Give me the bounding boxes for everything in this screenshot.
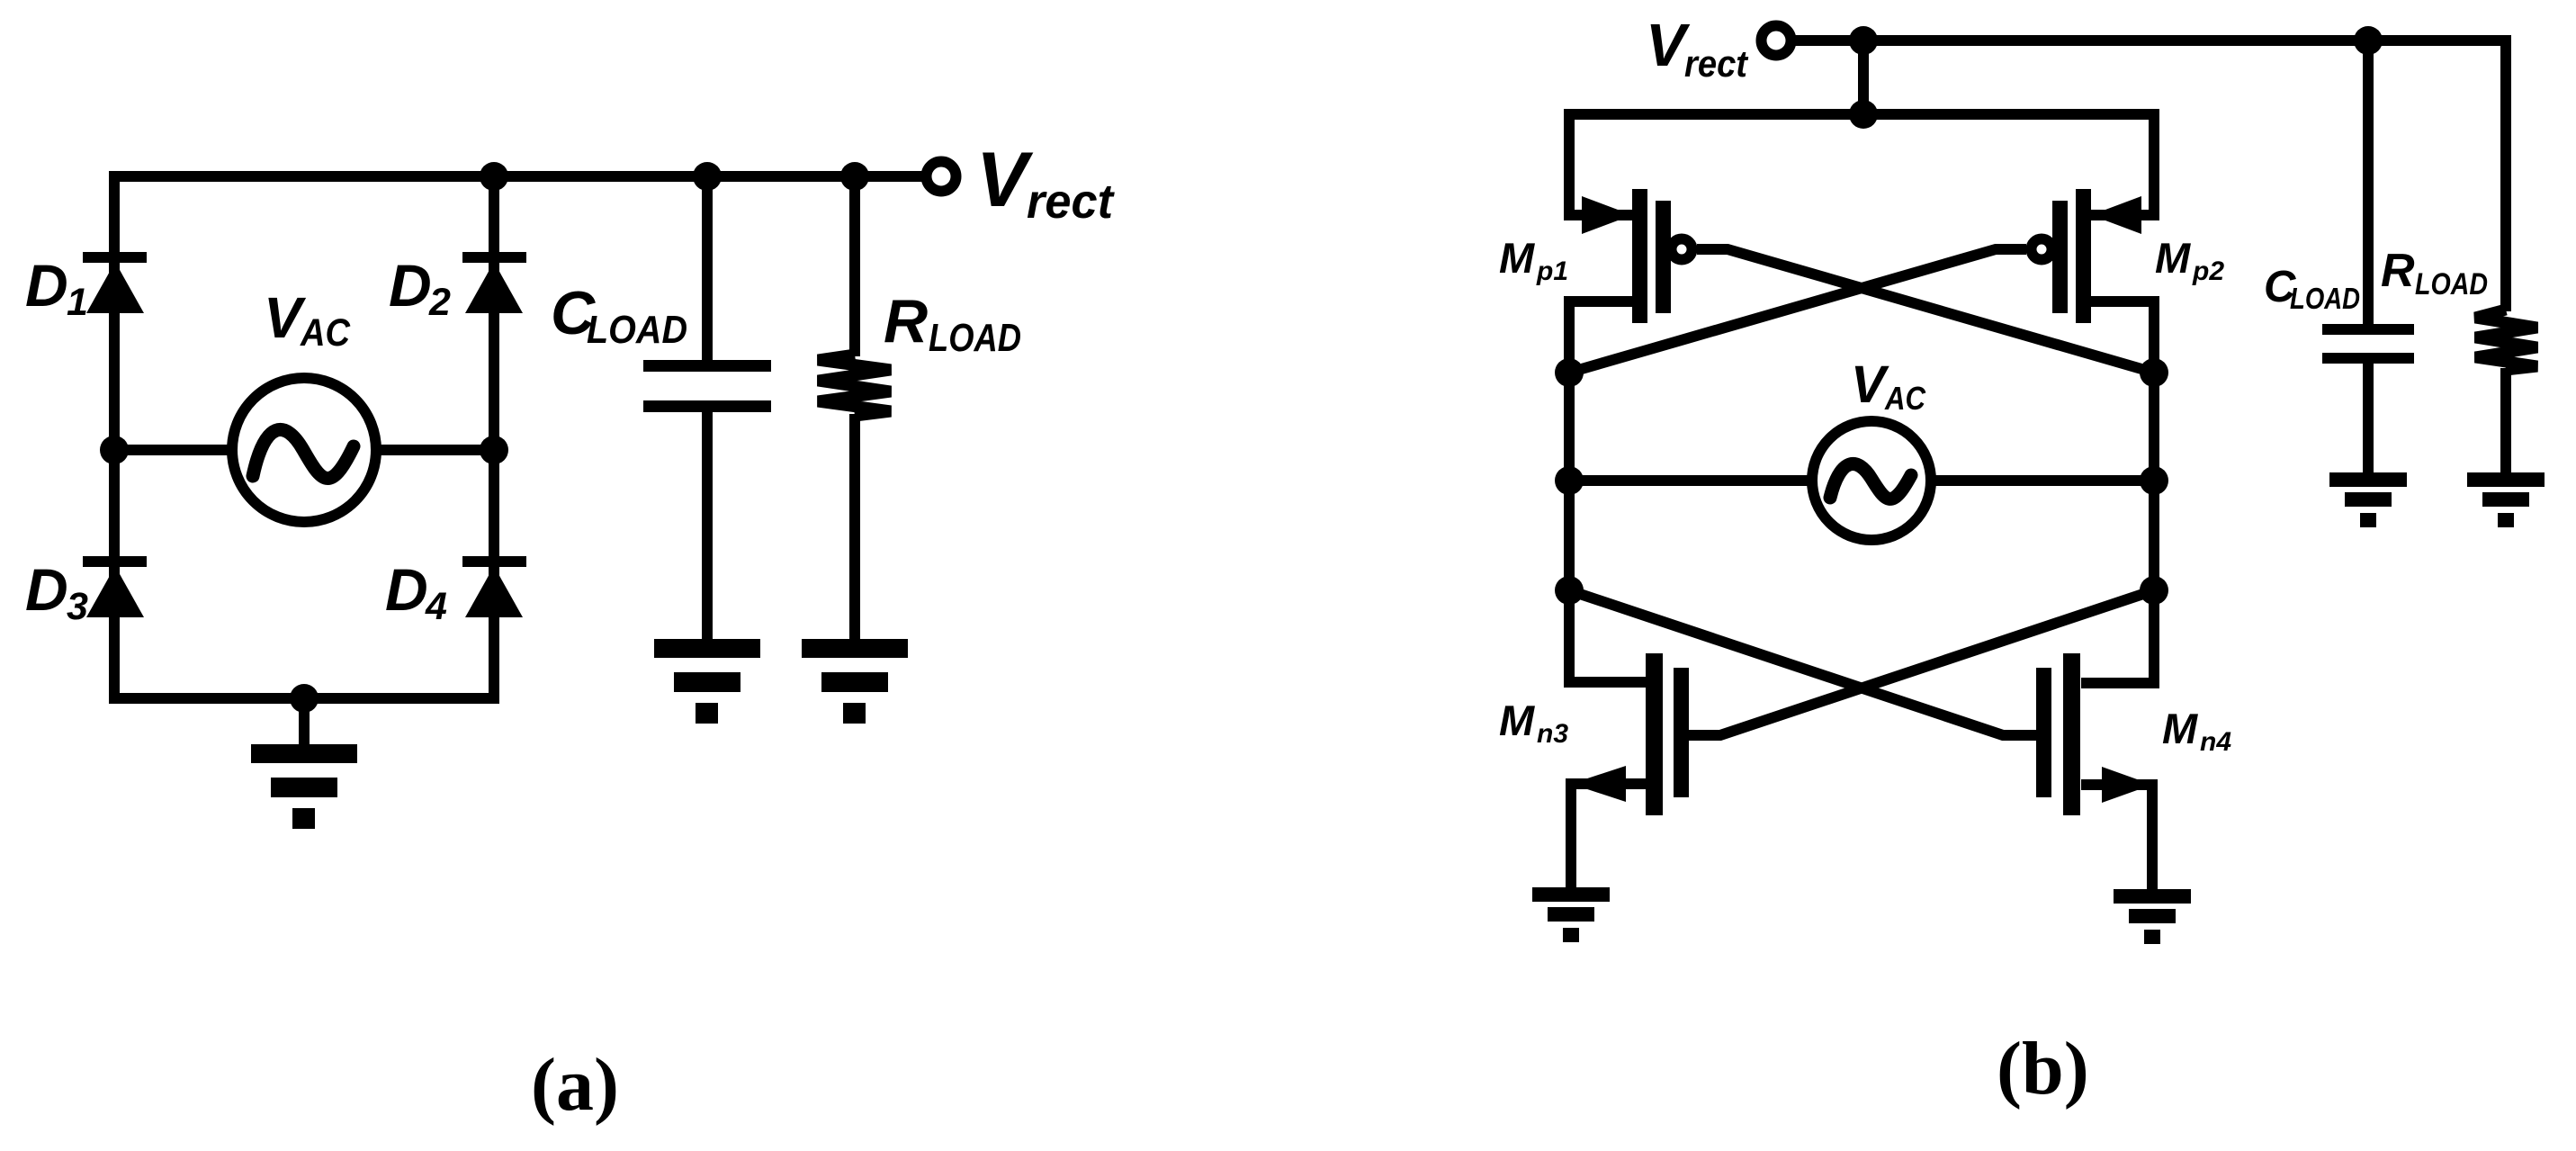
source V_AC (b) xyxy=(1812,421,1931,540)
svg-text:R: R xyxy=(884,287,928,355)
wire left branch (a) xyxy=(109,171,120,704)
wire bottom rail (a) xyxy=(109,693,499,704)
svg-text:V: V xyxy=(976,137,1034,223)
junction dot C branch (b) xyxy=(2354,26,2383,55)
wire mid rail (a) xyxy=(114,445,494,455)
terminal V_rect (a) xyxy=(927,162,956,192)
svg-text:rect: rect xyxy=(1684,42,1749,85)
wire ground stem (a) xyxy=(299,698,310,747)
wire right vertical (b) xyxy=(2081,301,2154,683)
nmos Mn3 xyxy=(1571,653,1689,891)
wire R_LOAD branch lower (b) xyxy=(2500,368,2511,474)
svg-text:(b): (b) xyxy=(1997,1027,2089,1111)
wire R_LOAD branch lower (a) xyxy=(849,414,860,642)
wire cross right node to Mn3 gate xyxy=(1689,590,2154,735)
svg-text:D: D xyxy=(25,252,68,319)
diode D4 xyxy=(462,556,526,617)
svg-text:LOAD: LOAD xyxy=(587,308,687,352)
node dot (a) mid right xyxy=(480,436,508,464)
svg-text:2: 2 xyxy=(428,281,451,324)
wire top rail (b) with right drop xyxy=(1791,40,2506,311)
wire C_LOAD branch lower (b) xyxy=(2363,363,2374,474)
ground center (a) xyxy=(251,744,357,829)
diode D1 xyxy=(83,252,147,313)
diode D2 xyxy=(462,252,526,313)
ground Mn4 xyxy=(2114,889,2191,944)
node dot VAC right (b) xyxy=(2140,466,2168,495)
junction dot rail2 (b) xyxy=(1849,100,1878,129)
svg-text:3: 3 xyxy=(67,585,88,628)
wire VAC rail (b) xyxy=(1569,475,2154,486)
svg-text:D: D xyxy=(25,556,68,623)
node dot (a) bottom xyxy=(290,684,319,713)
node dot (a) mid left xyxy=(100,436,129,464)
svg-text:LOAD: LOAD xyxy=(2290,282,2360,315)
svg-text:D: D xyxy=(389,252,432,319)
wire left vertical (b) xyxy=(1569,301,1646,682)
svg-text:p2: p2 xyxy=(2192,256,2224,286)
node dot right drain (b) xyxy=(2140,358,2168,387)
pmos Mp2 xyxy=(2032,189,2142,323)
svg-text:M: M xyxy=(2162,705,2198,752)
svg-text:n3: n3 xyxy=(1537,719,1568,749)
wire cross left node to Mn4 gate xyxy=(1569,590,2037,735)
diode D3 xyxy=(83,556,147,617)
nmos Mn4 xyxy=(2036,653,2152,891)
ground C_LOAD (b) xyxy=(2329,472,2407,527)
svg-text:V: V xyxy=(1851,355,1889,414)
wire cross Mp1 gate to right node xyxy=(1697,249,2154,373)
capacitor C_LOAD (a) xyxy=(643,360,771,412)
svg-text:AC: AC xyxy=(1884,380,1926,417)
svg-text:(a): (a) xyxy=(531,1043,619,1127)
junction dot top (b) xyxy=(1849,26,1878,55)
wire top rail (a) xyxy=(109,171,927,182)
node dot lower right (b) xyxy=(2140,576,2168,605)
wire C_LOAD branch upper (a) xyxy=(702,176,713,361)
svg-text:LOAD: LOAD xyxy=(2415,267,2488,301)
wire C_LOAD branch lower (a) xyxy=(702,411,713,642)
wire R_LOAD branch upper (a) xyxy=(849,176,860,356)
svg-text:LOAD: LOAD xyxy=(929,316,1021,360)
node dot left drain (b) xyxy=(1555,358,1584,387)
svg-text:R: R xyxy=(2381,245,2415,297)
wire V_rect stub (b) xyxy=(1858,40,1869,114)
wire rail2 (b) xyxy=(1569,114,2154,215)
node dot (a) top R xyxy=(840,162,869,191)
pmos Mp1 xyxy=(1582,189,1692,323)
resistor R_LOAD (a) xyxy=(818,355,891,416)
node dot lower left (b) xyxy=(1555,576,1584,605)
svg-text:4: 4 xyxy=(425,585,447,628)
svg-text:M: M xyxy=(1499,234,1535,282)
wire right branch (a) xyxy=(489,171,499,704)
terminal V_rect (b) xyxy=(1762,26,1791,56)
svg-text:M: M xyxy=(1499,697,1535,744)
ground C_LOAD (a) xyxy=(654,639,760,724)
source V_AC (a) xyxy=(232,378,376,522)
wire C_LOAD branch upper (b) xyxy=(2363,40,2374,325)
svg-text:n4: n4 xyxy=(2200,727,2231,757)
ground R_LOAD (b) xyxy=(2467,472,2545,527)
svg-text:1: 1 xyxy=(67,281,88,324)
capacitor C_LOAD (b) xyxy=(2322,324,2414,364)
node dot VAC left (b) xyxy=(1555,466,1584,495)
svg-text:M: M xyxy=(2155,234,2191,282)
ground Mn3 xyxy=(1532,887,1610,942)
resistor R_LOAD (b) xyxy=(2475,310,2537,370)
node dot (a) top C xyxy=(693,162,722,191)
svg-text:D: D xyxy=(385,556,428,623)
node dot (a) top D2 xyxy=(480,162,508,191)
svg-text:AC: AC xyxy=(300,311,351,355)
svg-text:p1: p1 xyxy=(1536,256,1568,286)
svg-text:rect: rect xyxy=(1027,175,1115,229)
ground R_LOAD (a) xyxy=(802,639,908,724)
wire cross Mp2 gate to left node xyxy=(1569,249,2026,373)
